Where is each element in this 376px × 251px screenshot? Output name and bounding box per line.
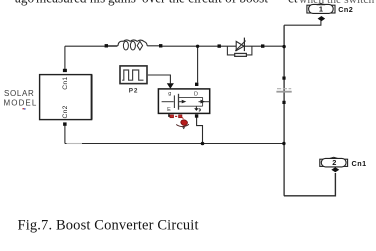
svg-text:Cn2: Cn2 (62, 105, 69, 118)
mosfet top channel (179, 96, 203, 98)
outport Cn1 diamond (331, 167, 339, 172)
svg-text:Cn1: Cn1 (352, 159, 367, 168)
port square capacitor top (282, 77, 285, 80)
wire Cn1 link bottom (284, 173, 336, 196)
svg-text:SOLAR: SOLAR (4, 89, 35, 98)
diode snubber resistor box (235, 53, 247, 56)
inductor L coil (108, 45, 161, 47)
port square capacitor bottom (282, 101, 285, 104)
dark tip diamond (182, 127, 185, 129)
tiny blue dot artifact (24, 108, 25, 109)
capacitor bottom plate (276, 91, 291, 93)
diode cathode bar (243, 38, 245, 52)
inductor diamond (137, 41, 142, 50)
svg-text:Cn2: Cn2 (338, 5, 353, 14)
port square solar top (63, 69, 67, 72)
mosfet gate lead (162, 101, 174, 103)
port square inductor right (159, 44, 162, 47)
P2 pulse generator block (120, 66, 147, 84)
red handle square 2 (179, 115, 182, 118)
wire drain drop (197, 46, 199, 82)
mosfet source stub arrow (195, 106, 197, 108)
svg-text:Cn1: Cn1 (62, 77, 69, 90)
outport Cn1 oval (321, 158, 346, 167)
port square mosfet drain (195, 83, 198, 86)
svg-text:over the circuit of boost: over the circuit of boost (142, 0, 268, 6)
wire solar top to rail (64, 46, 66, 69)
wire gate from P2 (148, 75, 171, 83)
diode triangle (236, 41, 244, 50)
mosfet block U1 (158, 89, 209, 114)
wire source to bottom rail (197, 117, 203, 143)
wire Cn2 link (284, 21, 321, 25)
port square mosfet source (195, 114, 198, 117)
junction right/top rail (282, 45, 285, 48)
svg-text:ago: ago (15, 0, 34, 6)
port square inductor left (105, 44, 108, 47)
svg-text:1: 1 (319, 5, 323, 14)
diode snubber left lead (227, 46, 234, 55)
port square diode left (218, 44, 221, 47)
svg-text:P2: P2 (129, 88, 138, 95)
diode snubber right lead (246, 46, 252, 55)
wire bottom rail (65, 143, 284, 145)
junction source/bottom rail (201, 142, 205, 146)
dark arc under red arrow (176, 124, 189, 126)
mosfet body bar (178, 94, 180, 110)
outport Cn2 diamond (318, 16, 326, 21)
red blob arrow (181, 120, 188, 126)
red dash (175, 116, 177, 117)
junction drain/top rail (196, 45, 199, 48)
inductor loop ellipses (123, 41, 128, 50)
capacitor top plate (277, 88, 291, 90)
svg-text:g: g (168, 91, 171, 97)
outport Cn2 bracket (307, 5, 335, 13)
diode diagonal (235, 41, 245, 51)
solar model block (40, 75, 92, 120)
mosfet gate bar (173, 95, 175, 108)
wire top rail right (161, 45, 284, 47)
junction right/bottom rail (282, 142, 285, 145)
red tick (182, 117, 183, 118)
wire top rail left (65, 45, 117, 47)
gate arrowhead (167, 83, 174, 89)
svg-text:gains: gains (108, 0, 136, 6)
svg-text:Fig.7. Boost Converter Circuit: Fig.7. Boost Converter Circuit (18, 218, 199, 234)
mosfet body arrow (179, 101, 182, 103)
red handle square 1 (170, 115, 174, 118)
dark stub below block (168, 114, 170, 117)
mosfet s curl (199, 109, 201, 111)
port square solar bottom (63, 122, 67, 125)
wire solar bottom drop (64, 126, 66, 144)
mosfet right vertical (202, 97, 204, 106)
svg-text:measured his: measured his (36, 0, 105, 6)
outport Cn1 bracket (320, 159, 348, 166)
tiny red dot artifact (23, 108, 24, 109)
outport Cn2 oval (309, 4, 334, 13)
svg-text:E: E (167, 107, 171, 113)
wire right vertical branch (283, 25, 285, 196)
svg-text:D: D (194, 91, 198, 97)
pulse waveform icon (122, 70, 143, 80)
svg-text:MODEL: MODEL (4, 98, 38, 107)
port square diode right (261, 44, 264, 47)
mosfet bottom channel (179, 105, 203, 107)
mosfet m lead arrow (199, 101, 210, 103)
svg-text:ct: ct (288, 0, 298, 6)
svg-text:2: 2 (332, 158, 336, 167)
